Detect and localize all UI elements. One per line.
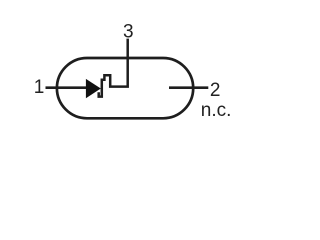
wire pin 2 lead (n.c.) — [169, 86, 208, 89]
diode D1 cathode with hooks and wire to pin 3 — [99, 39, 128, 97]
svg-text:2: 2 — [210, 80, 221, 101]
svg-text:1: 1 — [34, 77, 45, 98]
diode D1 anode triangle — [86, 79, 101, 98]
svg-text:3: 3 — [123, 22, 134, 43]
wire pin 1 lead — [46, 86, 87, 89]
svg-text:n.c.: n.c. — [201, 100, 232, 121]
package outline SOD70 stadium — [57, 58, 193, 118]
